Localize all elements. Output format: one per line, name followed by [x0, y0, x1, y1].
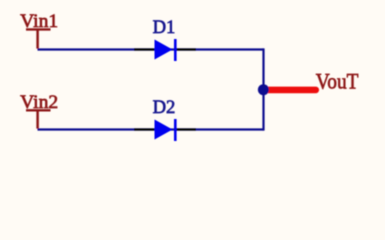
diode D2: [155, 119, 176, 141]
node junction dot: [258, 84, 269, 95]
port Vin2: [20, 92, 58, 129]
wire VouT stub (thick red): [265, 87, 316, 94]
wire Vin2 to node (bottom horizontal): [38, 128, 264, 130]
pin D1 cathode: [175, 48, 196, 50]
diode D1: [155, 39, 176, 61]
wire vertical segment joining diode outputs: [262, 48, 264, 130]
svg-text:D1: D1: [153, 17, 176, 38]
pin D1 anode: [134, 48, 155, 50]
pin D2 cathode: [175, 128, 196, 130]
pin D2 anode: [134, 128, 155, 130]
port Vin1: [20, 11, 58, 49]
svg-text:D2: D2: [153, 97, 176, 118]
wire Vin1 to node (top horizontal): [38, 48, 264, 50]
svg-text:VouT: VouT: [316, 69, 359, 94]
